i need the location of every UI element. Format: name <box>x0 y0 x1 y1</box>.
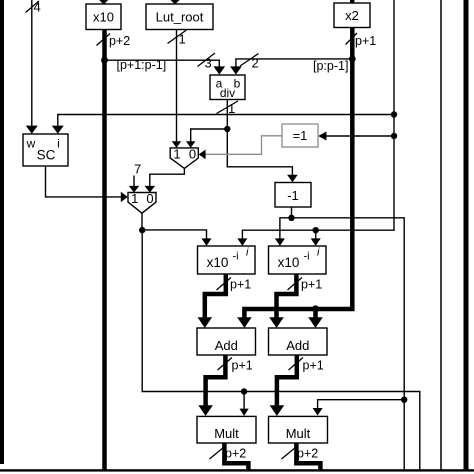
svg-text:Mult: Mult <box>286 426 311 441</box>
mux lower (1 0) <box>128 191 156 213</box>
wire i to SC <box>52 115 394 134</box>
wire div output (slash 1) with branches to mux0 and -1 <box>186 100 298 183</box>
bus Add R output p+1 <box>270 355 324 416</box>
svg-text:x10: x10 <box>207 255 229 270</box>
svg-text:p+1: p+1 <box>230 278 251 292</box>
svg-text:1: 1 <box>131 191 138 206</box>
svg-text:-i: -i <box>304 251 310 263</box>
node on y391 wire to Mult L <box>241 388 247 394</box>
svg-text:7: 7 <box>134 162 141 177</box>
block Lut_root <box>146 4 213 30</box>
svg-text:i: i <box>57 137 60 151</box>
node lower mux output <box>139 227 145 233</box>
wire i bus (right vertical) <box>237 0 394 246</box>
svg-text:SC: SC <box>37 148 56 163</box>
svg-text:4: 4 <box>34 0 41 15</box>
wire SC output to mux1 select <box>46 166 128 202</box>
wire w input (4) with slash <box>26 0 41 134</box>
block x10 <box>86 4 121 30</box>
svg-text:[p+1:p-1]: [p+1:p-1] <box>117 58 167 72</box>
bottom border line <box>0 469 474 471</box>
svg-text:Add: Add <box>215 338 238 353</box>
svg-text:w: w <box>26 137 36 151</box>
node i bus line C to x10^-i R <box>313 227 319 233</box>
svg-text:0: 0 <box>146 191 153 206</box>
svg-text:p+1: p+1 <box>303 359 324 373</box>
block x10^-i left <box>198 246 256 274</box>
svg-text:p+2: p+2 <box>225 447 246 461</box>
wire i to =1 comparator <box>318 132 394 141</box>
svg-text:p+2: p+2 <box>109 34 130 48</box>
block SC <box>23 134 68 166</box>
bus Mult L output p+2 <box>210 443 249 470</box>
svg-text:Add: Add <box>286 338 309 353</box>
svg-text:-1: -1 <box>287 188 299 203</box>
bus x10^-i R output p+1 <box>269 274 322 328</box>
svg-text:x10: x10 <box>93 10 114 25</box>
node on x10 bus <box>101 57 108 64</box>
node on -1 feedback to Mult R <box>401 397 407 403</box>
mux upper (1 0) <box>170 147 198 169</box>
svg-text:1: 1 <box>228 101 235 116</box>
svg-text:[p:p-1]: [p:p-1] <box>313 59 348 73</box>
svg-text:-i: -i <box>233 251 239 263</box>
wire lower mux output net <box>142 213 420 469</box>
bus branch into Add R right input <box>308 309 323 328</box>
wire into x2 from top (cropped stub) <box>350 0 354 3</box>
block div <box>210 75 245 100</box>
bus x10 output p+2 (thick vertical to bottom) <box>97 30 131 471</box>
node on x2 thick feedback at Add R <box>312 305 319 312</box>
node -1 output <box>288 215 294 221</box>
wire -1 output net <box>275 207 404 470</box>
block x10^-i right <box>269 246 327 274</box>
node i bus to =1 <box>391 133 397 139</box>
constant 7 into lower mux 1 <box>129 162 142 193</box>
svg-text:p+1: p+1 <box>355 34 376 48</box>
bus Add L output p+1 <box>198 355 252 416</box>
svg-text:p+1: p+1 <box>301 278 322 292</box>
svg-text:2: 2 <box>252 56 259 71</box>
svg-text:0: 0 <box>189 147 196 162</box>
svg-text:x2: x2 <box>345 8 359 23</box>
wire Lut_root output (slash 1) <box>168 30 187 148</box>
wire into Lut_root from top (cropped arrow) <box>169 0 182 5</box>
right border bus (cropped thick line) <box>464 0 469 470</box>
svg-text:=1: =1 <box>293 128 308 143</box>
node on div output <box>224 126 230 132</box>
block x2 <box>334 3 370 28</box>
svg-text:p+2: p+2 <box>297 447 318 461</box>
left border bus (cropped thick line) <box>0 0 4 464</box>
svg-text:3: 3 <box>205 56 212 71</box>
svg-text:div: div <box>220 86 235 100</box>
wire [p+1:p-1] to div a (slash 3) <box>105 53 226 75</box>
block -1 <box>275 183 311 208</box>
block Add right <box>269 328 328 355</box>
bus x10^-i L output p+1 <box>198 274 252 328</box>
block Mult right <box>269 416 328 443</box>
svg-text:1: 1 <box>173 147 180 162</box>
block =1 comparator (gray) <box>282 124 318 147</box>
svg-text:Lut_root: Lut_root <box>156 10 204 25</box>
wire feedthrough vertical right <box>440 0 442 470</box>
node i bus to SC <box>391 111 397 117</box>
bus Mult R output p+2 <box>282 443 321 470</box>
wire [p:p-1] to div b (slash 2) <box>230 54 352 75</box>
block Add left <box>197 328 256 355</box>
wire =1 output (gray) to upper mux select <box>199 136 282 159</box>
node on x2 bus <box>349 56 356 63</box>
svg-text:Mult: Mult <box>214 426 239 441</box>
svg-text:x10: x10 <box>278 255 300 270</box>
wire into x10 from top (cropped arrow) <box>97 0 110 5</box>
svg-text:p+1: p+1 <box>232 359 253 373</box>
block Mult left <box>197 416 256 443</box>
svg-text:1: 1 <box>179 32 186 47</box>
wire upper mux output to lower mux 0 <box>145 168 185 192</box>
bus x2 output p+1 (thick, corner into Add row) <box>237 28 376 328</box>
